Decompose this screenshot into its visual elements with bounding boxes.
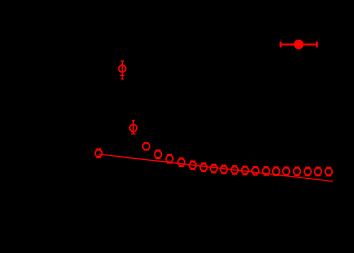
data point P21 [325, 167, 332, 175]
fit line [99, 154, 333, 181]
data point P15 [263, 167, 270, 175]
data point P10 [210, 164, 217, 172]
data point P14 [252, 167, 259, 175]
data point P7 [178, 158, 185, 166]
data point P19 [304, 167, 311, 175]
data point P9 [200, 163, 207, 171]
legend marker entry [281, 40, 317, 50]
data point P18 [294, 167, 301, 175]
data point P1 [95, 149, 102, 158]
data point P8 [189, 161, 196, 169]
data point P11 [220, 165, 227, 173]
data point P6 [166, 155, 173, 163]
data point P2 [119, 61, 126, 79]
data point P16 [273, 167, 280, 175]
data point P3 [130, 120, 137, 133]
data point P5 [155, 150, 162, 158]
data point P17 [283, 167, 290, 175]
data point P13 [242, 166, 249, 174]
data point P12 [231, 166, 238, 174]
data point P4 [143, 143, 150, 150]
data point P20 [315, 167, 322, 175]
